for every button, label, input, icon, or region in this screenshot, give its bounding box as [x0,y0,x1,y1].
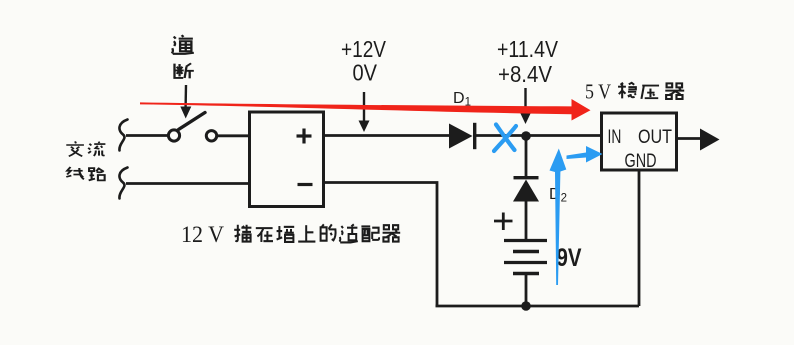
switch S1 right contact [206,131,216,141]
AC line break squiggle (bottom lead) [119,168,127,199]
switch S1 blade (open) [179,113,206,130]
wire: switch to adapter input [217,134,248,137]
adapter plus terminal mark [297,129,312,144]
svg-text:12 V: 12 V [181,222,224,247]
wire: rail up to regulator GND pin [638,170,641,306]
wire: D2 anode to battery plus [525,201,528,240]
wire: AC neutral lead to adapter [126,182,250,185]
junction node (top) [521,131,531,141]
output arrowhead [700,129,720,151]
svg-text:OUT: OUT [638,127,672,148]
wire: bottom return rail [436,305,640,308]
svg-text:+11.4V: +11.4V [497,36,559,62]
wire: battery minus to bottom rail [525,274,528,307]
battery plus sign [494,213,513,231]
label: 5 V 稳压器 (5V regulator) [585,80,684,104]
wire: AC hot lead to switch [126,134,168,137]
wire: D1 cathode to regulator input [476,134,601,137]
junction node (bottom, battery to rail) [521,301,531,311]
switch S1 left contact [168,130,179,141]
svg-text:+12V: +12V [341,36,387,62]
wire: regulator output [677,137,702,140]
svg-text:0V: 0V [353,60,378,86]
annotation arrow from on/off label to switch [180,85,191,119]
adapter minus terminal mark [298,183,313,186]
wire: node down to D2 cathode [525,136,528,178]
svg-text:5 V: 5 V [585,80,611,104]
diode D2 (cathode up) [513,176,539,202]
svg-text:IN: IN [608,127,622,148]
label: 通 / 断 (on/off) [172,35,194,78]
svg-text:+8.4V: +8.4V [498,61,553,87]
blue annotation arrow (vertical, from battery up) [550,149,567,286]
adapter box U1 [250,112,324,207]
AC line break squiggle (top lead) [119,120,127,151]
wire: adapter minus output, down leg [324,183,438,307]
diode D1 [449,123,476,149]
svg-text:9V: 9V [557,244,582,272]
blue X annotation over node [494,125,516,152]
annotation arrow at +11.4V node [520,88,531,124]
wire: adapter output to D1 [324,134,451,137]
label: +11.4V / +8.4V [497,36,559,87]
battery BT1 9V [504,241,547,274]
label: 12 V wall adapter (12 V 插在墙上的适配器) [181,222,400,247]
svg-text:GND: GND [625,151,657,172]
label: AC line (交流线路) [66,141,105,180]
red annotation arrow (input sweep) [140,99,591,121]
annotation arrow at +12V node [359,92,370,132]
blue annotation arrow (bent, pointing at IN pin) [567,146,603,163]
label: +12V / 0V [341,36,387,86]
5V regulator box U2 [602,113,677,170]
